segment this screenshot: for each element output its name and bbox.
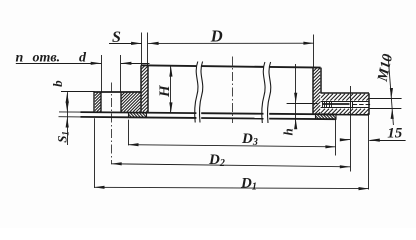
left drum wall xyxy=(141,65,148,112)
break line pair 2 xyxy=(262,62,271,123)
label 15 xyxy=(387,126,403,142)
label S xyxy=(112,29,121,46)
D3 dimension line xyxy=(128,143,336,148)
bolt hole dimension line xyxy=(16,62,150,65)
h top extension line xyxy=(287,103,318,105)
hub outline xyxy=(321,93,369,115)
label b xyxy=(50,80,65,87)
D dimension line xyxy=(148,42,314,45)
label D1 xyxy=(240,176,257,193)
label h xyxy=(281,128,296,135)
label D2 xyxy=(208,152,225,169)
M10 thread hole detail xyxy=(322,101,370,108)
label n otv. d xyxy=(16,51,88,66)
S dimension line xyxy=(109,42,142,45)
svg-text:отв.: отв. xyxy=(33,51,61,66)
drum mid centreline xyxy=(232,57,234,124)
svg-text:d: d xyxy=(79,51,87,66)
flange section right of hole xyxy=(121,92,141,112)
label D xyxy=(210,27,223,46)
svg-text:h: h xyxy=(281,128,296,135)
H dimension line xyxy=(169,66,172,113)
M10 leader line xyxy=(388,55,394,126)
svg-text:H: H xyxy=(157,84,173,98)
svg-text:D: D xyxy=(210,27,223,46)
flange top line xyxy=(61,91,141,94)
tube hatched section left xyxy=(129,113,147,118)
thread bottom extension line xyxy=(370,108,402,110)
svg-text:15: 15 xyxy=(387,126,403,142)
D right extension line xyxy=(313,35,315,68)
D2 right extension line xyxy=(350,86,352,172)
inner tube top line xyxy=(59,112,336,114)
drum shell top outline xyxy=(141,65,321,67)
D2 dimension line xyxy=(111,162,350,168)
flange section left of hole xyxy=(94,92,101,112)
15 dimension line xyxy=(340,138,406,142)
tube hatched section right xyxy=(316,114,337,119)
D1 extension lines xyxy=(95,115,369,189)
right drum wall xyxy=(313,68,321,115)
label H xyxy=(157,84,173,98)
S extension lines xyxy=(142,33,148,65)
svg-text:n: n xyxy=(16,51,24,66)
label D3 xyxy=(241,131,258,148)
D3 extension lines xyxy=(129,119,336,155)
D1 dimension line xyxy=(94,186,369,191)
h dimension line xyxy=(294,64,297,129)
svg-text:S: S xyxy=(112,29,121,46)
inner tube bottom line xyxy=(59,117,337,120)
break line pair 1 xyxy=(195,62,203,123)
b and S1 dimension line xyxy=(66,92,69,145)
hub bottom hatched band xyxy=(321,109,369,115)
label S1 xyxy=(54,131,70,143)
thread top extension line xyxy=(370,98,402,100)
svg-text:b: b xyxy=(50,80,65,87)
hub top hatched band xyxy=(321,94,369,101)
bolt hole centreline xyxy=(111,83,113,165)
bolt hole extension lines xyxy=(102,55,121,92)
label M10 xyxy=(375,53,397,84)
